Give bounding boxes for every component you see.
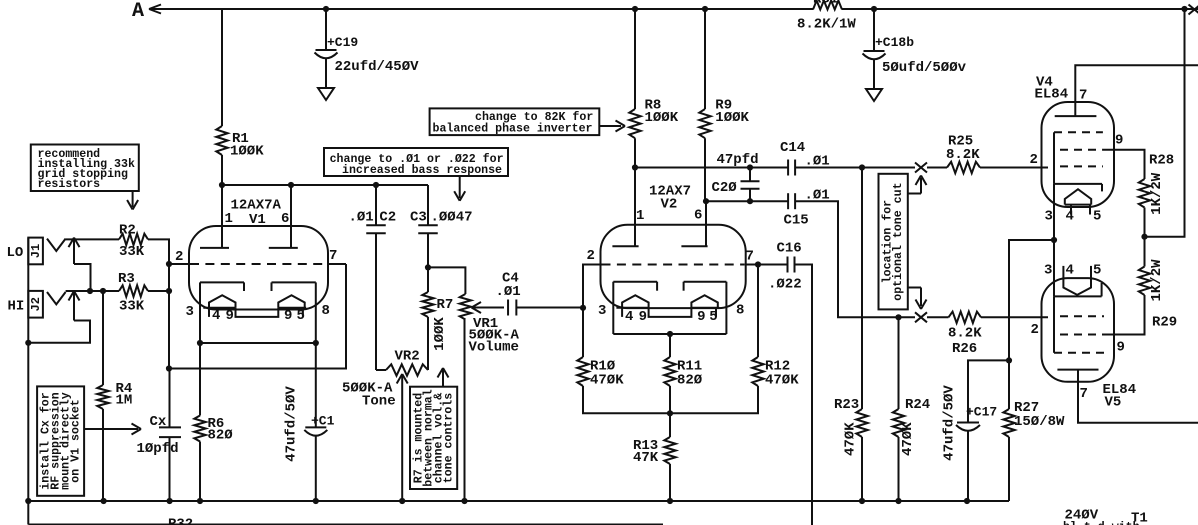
junction on rail at C18b xyxy=(871,6,877,12)
wire C18b bottom lead xyxy=(873,60,875,90)
label R23 value rotated xyxy=(842,422,858,456)
tube V4 heater xyxy=(1065,189,1091,204)
junction R27 top node xyxy=(1006,357,1012,363)
junction screen node xyxy=(1141,234,1147,240)
svg-text:resistors: resistors xyxy=(38,178,101,191)
svg-text:.Ø1: .Ø1 xyxy=(349,210,374,226)
svg-text:C3: C3 xyxy=(410,210,427,226)
svg-text:3: 3 xyxy=(1045,209,1053,225)
capacitor C3 xyxy=(418,225,438,233)
svg-text:on V1 socket: on V1 socket xyxy=(70,399,83,483)
resistor R13 xyxy=(664,437,675,464)
svg-text:3: 3 xyxy=(1044,263,1052,279)
junction rail at sleeve xyxy=(25,498,31,504)
resistor R7 xyxy=(422,292,433,317)
svg-text:1K/2W: 1K/2W xyxy=(1149,172,1165,215)
svg-text:33K: 33K xyxy=(119,244,145,260)
junction rail at VR1 xyxy=(461,498,467,504)
VR1 wiper arrow xyxy=(472,302,505,313)
wire V4 pin9 to R28 xyxy=(1103,150,1145,179)
svg-text:VR2: VR2 xyxy=(395,349,420,365)
svg-text:9: 9 xyxy=(697,309,705,325)
wire R29 top lead xyxy=(1144,237,1146,267)
junction C14 node at R23 xyxy=(859,164,865,170)
label R23 xyxy=(834,397,859,413)
wire C18b top lead xyxy=(873,9,875,51)
jack J2 box xyxy=(28,291,43,318)
svg-text:V2: V2 xyxy=(661,197,678,213)
svg-text:R2: R2 xyxy=(119,223,136,239)
resistor R2 xyxy=(119,234,148,245)
svg-text:2: 2 xyxy=(587,248,595,264)
wire R11 top lead xyxy=(669,334,671,357)
wire ground rail xyxy=(28,500,1009,502)
wire R8 bottom lead xyxy=(634,138,636,167)
svg-text:bl t d with: bl t d with xyxy=(1063,521,1140,525)
wire grid node vertical xyxy=(168,264,170,369)
wire R9 top lead xyxy=(704,9,706,109)
wire V2 pin1 lead xyxy=(634,168,636,247)
label V5 pin 4 xyxy=(1066,263,1074,279)
svg-text:47ØK: 47ØK xyxy=(765,373,799,389)
svg-text:1K/2W: 1K/2W xyxy=(1149,259,1165,302)
wire R13 top lead xyxy=(669,413,671,437)
junction on rail at C19 xyxy=(323,6,329,12)
label V5 xyxy=(1103,382,1137,411)
label LO xyxy=(7,245,24,261)
wire R1 top lead xyxy=(221,9,223,126)
wire V1 pin7 stub xyxy=(328,263,346,265)
label V2 pin 9b xyxy=(697,309,705,325)
tube V1 left plate xyxy=(200,247,229,249)
label R4 xyxy=(116,381,133,409)
svg-text:6: 6 xyxy=(694,208,702,224)
svg-text:5: 5 xyxy=(709,309,717,325)
node A label xyxy=(132,0,144,23)
svg-text:4: 4 xyxy=(1066,209,1074,225)
wire C15 to lower X xyxy=(795,201,915,317)
svg-text:47ufd/5ØV: 47ufd/5ØV xyxy=(284,386,300,462)
svg-text:R29: R29 xyxy=(1152,315,1177,331)
junction V1 cathode left xyxy=(197,340,203,346)
resistor R4 xyxy=(97,385,108,409)
wire C4 to V2 grid xyxy=(516,307,583,309)
svg-text:.Ø1: .Ø1 xyxy=(496,284,521,300)
junction R4 at R3 node xyxy=(100,288,106,294)
label R13 xyxy=(633,438,659,466)
svg-text:Tone: Tone xyxy=(362,394,396,410)
wire C19 top lead xyxy=(325,9,327,50)
resistor R26 xyxy=(949,312,982,323)
label T1 xyxy=(1131,511,1148,525)
svg-text:R23: R23 xyxy=(834,397,859,413)
svg-text:47K: 47K xyxy=(633,450,659,466)
label V5 pin 5 xyxy=(1093,263,1101,279)
svg-text:J1: J1 xyxy=(29,244,43,258)
label C14 xyxy=(780,140,830,170)
svg-text:R26: R26 xyxy=(952,341,977,357)
svg-text:6: 6 xyxy=(281,211,289,227)
resistor R6 xyxy=(194,416,205,442)
wire V4 pin4 stub xyxy=(1070,205,1072,215)
wire R29 bottom lead xyxy=(1104,295,1145,335)
tube V1 cathode box xyxy=(200,282,316,343)
junction V2 grid node xyxy=(580,305,586,311)
jack J1 tip contact xyxy=(47,239,66,251)
wire R8 top lead xyxy=(634,9,636,109)
label R7 xyxy=(437,297,454,313)
wire V5 pin3 lead xyxy=(1053,240,1055,296)
resistor R3 xyxy=(119,285,148,296)
jack J1 shunt arrow xyxy=(69,238,80,264)
junction on rail at R8 xyxy=(632,6,638,12)
svg-text:C14: C14 xyxy=(780,140,805,156)
capacitor C20 xyxy=(741,181,760,189)
wire R10 bottom lead xyxy=(583,386,670,413)
label R1 xyxy=(230,131,264,160)
wire R27 bottom lead xyxy=(1008,437,1010,501)
junction rail at VR2 xyxy=(399,498,405,504)
wire plate1 bus xyxy=(635,167,788,169)
tube V4 grid dashes xyxy=(1054,132,1103,166)
junction rail at R13 xyxy=(667,498,673,504)
resistor R28 xyxy=(1139,179,1150,208)
junction C20 top xyxy=(747,164,753,170)
label C17 xyxy=(966,405,997,420)
wire C20 top lead xyxy=(749,168,751,182)
note box: location for optional tone cut xyxy=(879,174,908,310)
label R12 xyxy=(765,359,799,389)
svg-text:1ØØK: 1ØØK xyxy=(432,317,448,351)
wire R23 top lead xyxy=(861,168,863,410)
tube V2 grid dashes xyxy=(602,264,745,266)
wire Cx bottom lead xyxy=(169,437,171,501)
junction grid node upper xyxy=(166,261,172,267)
svg-text:Volume: Volume xyxy=(469,340,519,356)
junction rail at R23 xyxy=(859,498,865,504)
tube V1 grid dashes xyxy=(190,263,328,265)
label V4 pin 7 xyxy=(1079,88,1087,104)
VR2 wiper arrow xyxy=(397,374,408,501)
label R32 xyxy=(168,517,193,525)
wire sleeve below rail xyxy=(28,501,663,525)
wire R2 to grid node xyxy=(148,239,169,264)
wire R7 bottom lead xyxy=(427,317,429,370)
label C16 xyxy=(768,241,802,293)
label R26 xyxy=(948,326,982,358)
jack J2 tip contact xyxy=(47,292,66,304)
wire X to R25 xyxy=(927,167,947,169)
wire R11 bottom lead xyxy=(669,386,671,413)
junction V1 cathode right xyxy=(313,340,319,346)
svg-text:C2: C2 xyxy=(379,210,396,226)
svg-text:9: 9 xyxy=(639,309,647,325)
wire V5 pin5 stub xyxy=(1090,266,1092,279)
junction rail at C17 xyxy=(964,498,970,504)
wire C16 feedback xyxy=(795,265,813,525)
tube V2 heaters xyxy=(616,295,719,317)
svg-text:tone controls: tone controls xyxy=(443,393,456,483)
label V4 pin 2 xyxy=(1030,152,1038,168)
wire C1 bottom lead xyxy=(315,436,317,501)
label V5 pin 3 xyxy=(1044,263,1052,279)
tube V2 envelope xyxy=(601,225,746,308)
svg-text:47pfd: 47pfd xyxy=(717,152,759,168)
resistor R29 xyxy=(1139,267,1150,296)
tube V5 grid dashes xyxy=(1054,316,1104,353)
wire C19 bottom lead xyxy=(325,59,327,89)
label V5 pin 7 xyxy=(1080,386,1088,402)
svg-text:7: 7 xyxy=(329,248,337,264)
svg-text:22ufd/45ØV: 22ufd/45ØV xyxy=(335,59,420,75)
label V4 pin 4 xyxy=(1066,209,1074,225)
svg-text:R31: R31 xyxy=(813,0,838,8)
svg-text:1: 1 xyxy=(225,211,233,227)
wire cathode to C17 xyxy=(968,360,1009,422)
svg-text:+C18b: +C18b xyxy=(875,35,914,50)
wire R26 to V5 grid xyxy=(981,316,1048,318)
capacitor C1 xyxy=(304,427,327,435)
svg-text:EL84: EL84 xyxy=(1035,87,1069,103)
junction EL84 cathode node xyxy=(1051,237,1057,243)
wire R12 bottom lead xyxy=(670,386,758,413)
label R29 value rotated xyxy=(1149,259,1165,302)
svg-text:82Ø: 82Ø xyxy=(677,373,703,389)
resistor R8 xyxy=(629,109,640,138)
svg-text:5Øufd/5ØØv: 5Øufd/5ØØv xyxy=(882,60,967,76)
label R24 value rotated xyxy=(900,422,916,456)
wire VR1 top lead xyxy=(428,267,465,294)
label V2 pin 8 xyxy=(736,303,744,319)
label C1 xyxy=(311,414,335,429)
label R9 xyxy=(715,98,749,127)
wire R24 bottom lead xyxy=(898,437,900,501)
resistor R10 xyxy=(577,357,588,386)
wire V1 plate node xyxy=(222,184,428,186)
label V1 pin 7 xyxy=(329,248,337,264)
svg-text:4: 4 xyxy=(212,308,220,324)
svg-text:C15: C15 xyxy=(784,213,809,229)
svg-text:1M: 1M xyxy=(116,393,133,409)
junction rail at C1 xyxy=(313,498,319,504)
svg-text:15Ø/8W: 15Ø/8W xyxy=(1014,414,1065,430)
wire jack sleeve bus xyxy=(27,238,29,501)
tube V4 plate xyxy=(1055,115,1097,117)
svg-text:J2: J2 xyxy=(29,297,43,311)
svg-text:9: 9 xyxy=(226,308,234,324)
potentiometer VR1 xyxy=(460,294,471,320)
junction C3 bottom node xyxy=(425,264,431,270)
junction V2 pin7 node xyxy=(755,261,761,267)
label V1 pin 5 xyxy=(297,308,305,324)
wire R13 bottom lead xyxy=(669,464,671,501)
resistor R27 xyxy=(1003,409,1014,437)
svg-text:4: 4 xyxy=(1066,263,1074,279)
wire V4 pin5 stub xyxy=(1089,205,1091,215)
wire C3 top lead xyxy=(427,185,429,225)
svg-text:increased bass response: increased bass response xyxy=(342,164,502,177)
label R28 value rotated xyxy=(1149,172,1165,215)
label V1 pin 1 xyxy=(225,211,233,227)
wire R4 top lead xyxy=(102,291,104,385)
svg-text:7: 7 xyxy=(1079,88,1087,104)
svg-text:Cx: Cx xyxy=(150,414,167,430)
label V1 pin 6 xyxy=(281,211,289,227)
junction rail at R6 xyxy=(197,498,203,504)
svg-text:R32: R32 xyxy=(168,517,193,525)
capacitor C4 xyxy=(508,300,516,316)
label VR2 xyxy=(342,349,420,410)
label V1 pin 8 xyxy=(322,303,330,319)
label V2 pin 5 xyxy=(709,309,717,325)
label V1 pin 2 xyxy=(175,249,183,265)
note box 1 arrow xyxy=(127,191,138,210)
label C4 xyxy=(496,271,521,301)
svg-text:47ufd/5ØV: 47ufd/5ØV xyxy=(942,385,958,461)
junction R24 top xyxy=(895,314,901,320)
label R6 xyxy=(208,416,234,444)
tube V1 heaters xyxy=(203,295,306,317)
wire R9 bottom lead xyxy=(704,138,706,201)
label R28 xyxy=(1149,152,1174,168)
label R24 xyxy=(905,397,930,413)
svg-text:1ØØK: 1ØØK xyxy=(230,144,264,160)
wire R7 top lead xyxy=(427,267,429,292)
wire C16 left lead xyxy=(758,264,788,266)
label C3 xyxy=(410,210,473,226)
wire VR2 left lead xyxy=(376,369,386,371)
label C18b xyxy=(875,35,967,76)
svg-text:33K: 33K xyxy=(119,299,145,315)
potentiometer VR2 xyxy=(386,364,428,375)
note box 6 arrow xyxy=(599,121,625,132)
wire R6 top lead xyxy=(199,343,201,416)
label C15 xyxy=(784,188,830,229)
svg-text:3: 3 xyxy=(598,303,606,319)
label V1 pin 4 xyxy=(212,308,220,324)
svg-text:+C19: +C19 xyxy=(327,35,358,50)
svg-text:9: 9 xyxy=(1115,133,1123,149)
junction R9 bottom node xyxy=(703,198,709,204)
label V1 type xyxy=(231,198,282,229)
label V2 pin 7 xyxy=(746,249,754,265)
capacitor C19 xyxy=(315,50,338,58)
wire J1 shunt staircase xyxy=(74,264,91,291)
junction J1 shunt at R3 node xyxy=(87,288,93,294)
svg-text:.ØØ47: .ØØ47 xyxy=(431,210,473,226)
label C19 xyxy=(327,35,419,75)
svg-text:R24: R24 xyxy=(905,397,930,413)
note box: change to 82K for balanced phase inverter xyxy=(430,108,600,135)
label 240V xyxy=(1065,508,1099,524)
wire R28 bottom lead xyxy=(1144,208,1146,237)
wire C20 bottom lead xyxy=(749,189,751,201)
svg-text:+C17: +C17 xyxy=(966,405,997,420)
svg-text:HI: HI xyxy=(8,299,25,315)
wire R4 bottom lead xyxy=(102,409,104,501)
label R31 ref (cut) xyxy=(813,0,838,8)
wire C14 to X xyxy=(795,167,915,169)
svg-text:47ØK: 47ØK xyxy=(590,373,624,389)
jack J2 shunt arrow xyxy=(69,291,80,321)
note box: recommend installing 33k grid stopping resistors xyxy=(31,145,139,192)
label V1 pin 3 xyxy=(186,304,194,320)
label VR1 xyxy=(469,316,520,356)
svg-text:V5: V5 xyxy=(1105,395,1122,411)
wire R12 top lead xyxy=(757,265,759,358)
label R7 value rotated xyxy=(432,317,448,351)
svg-text:4: 4 xyxy=(625,309,633,325)
junction grid node at pin7 wire xyxy=(166,365,172,371)
wire V5 pin4 stub xyxy=(1062,266,1064,279)
label R8 xyxy=(645,98,679,127)
label V2 pin 9a xyxy=(639,309,647,325)
label C2 xyxy=(349,210,397,226)
label R2 xyxy=(119,223,145,261)
tube V2 cathode box xyxy=(613,282,726,334)
svg-text:5: 5 xyxy=(297,308,305,324)
resistor R11 xyxy=(664,357,675,386)
resistor R24 xyxy=(893,409,904,437)
junction rail at R4 xyxy=(101,498,107,504)
junction on rail at R9 xyxy=(702,6,708,12)
svg-text:R3: R3 xyxy=(118,271,135,287)
node A arrow xyxy=(149,5,161,14)
junction J2 shunt at sleeve bus xyxy=(25,340,31,346)
capacitor C18b xyxy=(863,51,886,59)
wire screen feed xyxy=(1145,9,1185,237)
svg-text:47ØK: 47ØK xyxy=(842,422,858,456)
label HI xyxy=(8,299,25,315)
wire VR1 bottom lead xyxy=(464,320,466,502)
svg-text:9: 9 xyxy=(1117,340,1125,356)
note box: change to .01 or .022 for increased bass response xyxy=(324,148,508,177)
svg-text:5: 5 xyxy=(1093,209,1101,225)
label R3 xyxy=(118,271,145,315)
svg-text:8.2K: 8.2K xyxy=(946,147,980,163)
label V4 pin 5 xyxy=(1093,209,1101,225)
junction rail at R24 xyxy=(895,498,901,504)
tube V5 heater xyxy=(1063,279,1091,295)
note box 2 arrow xyxy=(84,424,141,435)
svg-text:8: 8 xyxy=(736,303,744,319)
label R31 value xyxy=(797,17,856,33)
svg-text:5: 5 xyxy=(1093,263,1101,279)
wire V2 pin7 stub xyxy=(746,264,758,266)
junction V1 pin1 node xyxy=(219,182,225,188)
ground at C18b xyxy=(866,89,882,101)
ground at C19 xyxy=(318,88,334,100)
label C20 xyxy=(712,180,738,196)
label C1 value rotated xyxy=(284,386,300,462)
svg-text:8: 8 xyxy=(322,303,330,319)
wire plate2 bus xyxy=(706,200,788,202)
resistor R31 (cut at top edge) xyxy=(813,1,842,10)
label V5 pin 9 xyxy=(1117,340,1125,356)
wire C2 top lead xyxy=(375,185,377,225)
label R11 xyxy=(677,359,703,389)
wire X to R26 xyxy=(927,316,949,318)
wire J2 tip to R3 xyxy=(66,290,119,292)
tube V2 left plate xyxy=(612,245,638,247)
svg-text:47ØK: 47ØK xyxy=(900,422,916,456)
label V4 pin 9 xyxy=(1115,133,1123,149)
junction C20 bottom xyxy=(747,198,753,204)
label V2 type xyxy=(649,184,691,213)
svg-text:1ØØK: 1ØØK xyxy=(645,110,679,126)
wire R1 bottom lead xyxy=(221,155,223,185)
junction grid node at R3 xyxy=(166,288,172,294)
